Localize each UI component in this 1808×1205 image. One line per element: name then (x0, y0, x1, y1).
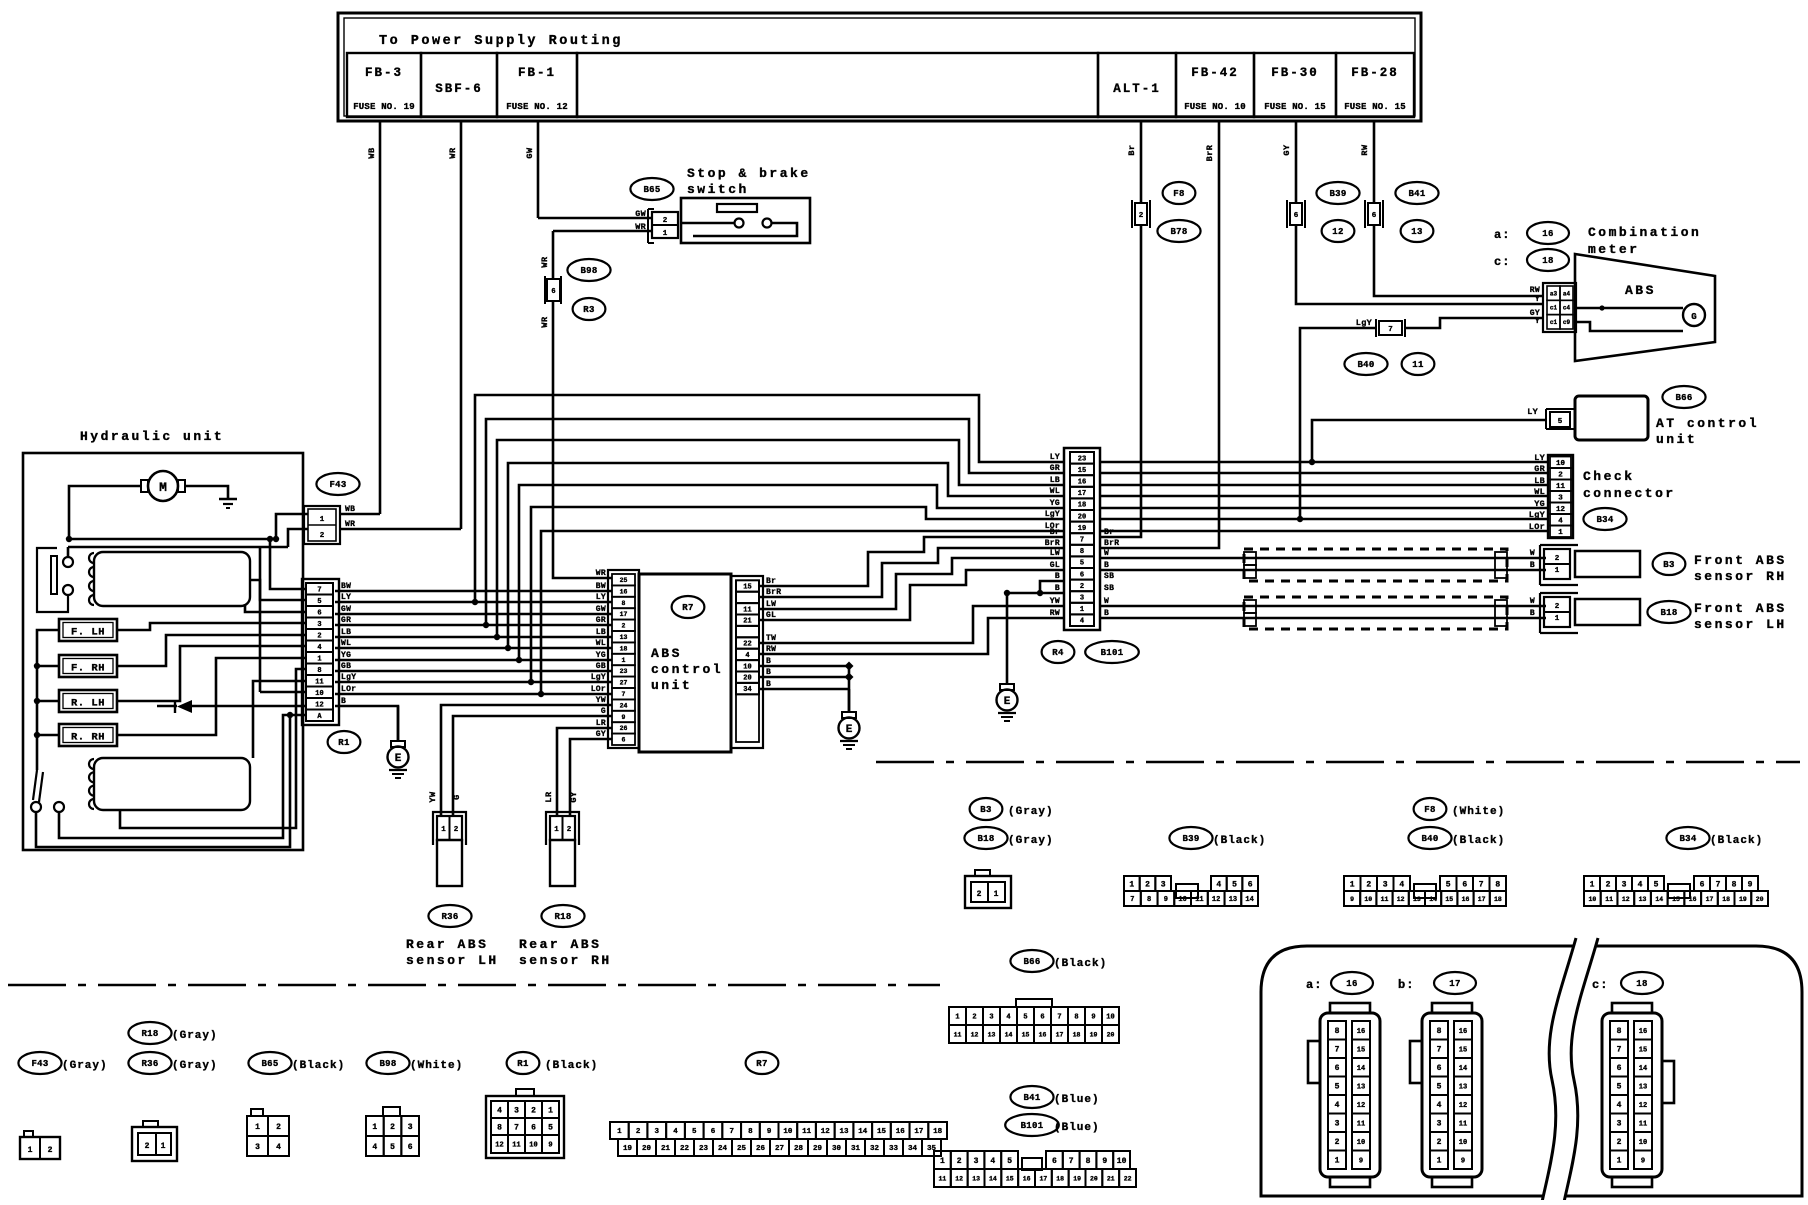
svg-text:B98: B98 (580, 266, 597, 276)
svg-text:Front ABS: Front ABS (1694, 601, 1787, 616)
svg-text:F43: F43 (329, 480, 346, 490)
svg-text:LY: LY (1050, 453, 1060, 462)
svg-text:LgY: LgY (591, 673, 606, 682)
svg-text:7: 7 (1335, 1046, 1340, 1055)
svg-text:2: 2 (1335, 1138, 1340, 1147)
svg-text:15: 15 (1006, 1175, 1014, 1182)
svg-text:1: 1 (1590, 880, 1595, 889)
svg-text:(Black): (Black) (545, 1060, 598, 1072)
svg-text:11: 11 (802, 1128, 812, 1136)
svg-text:20: 20 (1107, 1031, 1115, 1038)
svg-text:c9: c9 (1563, 319, 1571, 326)
svg-text:6: 6 (622, 737, 626, 744)
svg-text:18: 18 (1078, 502, 1086, 510)
svg-text:15: 15 (1078, 467, 1086, 475)
svg-text:6: 6 (1335, 1064, 1340, 1073)
svg-text:R7: R7 (756, 1059, 767, 1069)
svg-text:18: 18 (1722, 896, 1730, 903)
svg-text:12: 12 (1556, 506, 1566, 514)
svg-text:Check: Check (1583, 469, 1635, 484)
svg-text:LOr: LOr (341, 685, 356, 694)
svg-text:YG: YG (1050, 499, 1060, 508)
svg-text:22: 22 (743, 641, 751, 649)
svg-text:9: 9 (767, 1128, 772, 1136)
svg-text:4: 4 (317, 644, 321, 652)
svg-text:1: 1 (320, 516, 325, 524)
svg-text:Front ABS: Front ABS (1694, 553, 1787, 568)
svg-text:G: G (601, 707, 606, 716)
svg-text:B3: B3 (980, 805, 991, 815)
svg-text:4: 4 (1617, 1101, 1622, 1110)
svg-text:1: 1 (663, 230, 668, 238)
svg-text:B39: B39 (1182, 834, 1199, 844)
svg-text:14: 14 (1459, 1065, 1467, 1073)
svg-text:1: 1 (441, 826, 446, 834)
svg-text:16: 16 (1639, 1028, 1647, 1036)
svg-text:LR: LR (596, 719, 606, 728)
svg-text:ALT-1: ALT-1 (1113, 82, 1161, 96)
svg-text:5: 5 (1007, 1157, 1012, 1166)
svg-text:13: 13 (839, 1128, 849, 1136)
svg-text:2: 2 (48, 1146, 53, 1155)
svg-text:19: 19 (1078, 525, 1086, 533)
svg-text:14: 14 (1005, 1031, 1013, 1038)
svg-text:1: 1 (1437, 1157, 1442, 1166)
svg-text:1: 1 (1335, 1157, 1340, 1166)
svg-text:21: 21 (743, 618, 751, 626)
svg-text:3: 3 (1622, 880, 1627, 889)
svg-text:(Black): (Black) (292, 1060, 345, 1072)
svg-text:7: 7 (1437, 1046, 1442, 1055)
svg-text:2: 2 (1555, 555, 1560, 563)
svg-text:B65: B65 (643, 185, 660, 195)
svg-text:M: M (159, 480, 167, 495)
svg-text:TW: TW (766, 634, 776, 643)
svg-text:16: 16 (1357, 1028, 1365, 1036)
svg-text:GR: GR (1534, 464, 1545, 474)
svg-text:12: 12 (955, 1175, 963, 1182)
svg-text:YW: YW (596, 696, 606, 705)
svg-text:R. LH: R. LH (71, 698, 105, 710)
svg-text:26: 26 (756, 1145, 766, 1153)
svg-text:6: 6 (1294, 212, 1299, 220)
svg-text:1: 1 (940, 1157, 945, 1166)
svg-text:12: 12 (1212, 896, 1220, 904)
svg-text:10: 10 (529, 1142, 537, 1150)
svg-text:2: 2 (317, 632, 321, 640)
svg-text:15: 15 (1445, 896, 1453, 903)
svg-text:14: 14 (1429, 896, 1437, 903)
svg-text:7: 7 (1069, 1157, 1074, 1166)
svg-text:21: 21 (661, 1145, 671, 1153)
svg-text:ABS: ABS (1625, 283, 1656, 298)
svg-text:FB-28: FB-28 (1351, 66, 1399, 80)
svg-text:4: 4 (1437, 1101, 1442, 1110)
svg-text:YW: YW (1050, 597, 1060, 606)
svg-text:4: 4 (1558, 518, 1563, 526)
svg-text:15: 15 (1459, 1046, 1467, 1054)
svg-text:B66: B66 (1023, 957, 1040, 967)
svg-text:Hydraulic unit: Hydraulic unit (80, 429, 224, 444)
svg-text:LOr: LOr (591, 685, 606, 694)
svg-text:FUSE NO. 15: FUSE NO. 15 (1264, 102, 1326, 112)
svg-text:30: 30 (832, 1145, 842, 1153)
svg-text:2: 2 (1606, 880, 1611, 889)
svg-text:YG: YG (596, 651, 606, 660)
svg-text:9: 9 (1350, 896, 1354, 903)
svg-text:3: 3 (408, 1123, 413, 1132)
svg-text:LW: LW (1050, 549, 1060, 558)
svg-text:15: 15 (1022, 1031, 1030, 1038)
svg-text:18: 18 (1056, 1175, 1064, 1182)
svg-text:7: 7 (1617, 1046, 1622, 1055)
svg-text:F. RH: F. RH (71, 663, 105, 675)
svg-text:6: 6 (1617, 1064, 1622, 1073)
svg-text:18: 18 (1542, 256, 1553, 266)
svg-text:9: 9 (548, 1142, 552, 1150)
svg-text:FB-1: FB-1 (518, 66, 556, 80)
svg-text:9: 9 (1748, 880, 1753, 889)
svg-text:32: 32 (870, 1145, 880, 1153)
svg-text:2: 2 (1139, 212, 1144, 220)
svg-text:LgY: LgY (1529, 510, 1546, 520)
svg-text:34: 34 (908, 1145, 918, 1153)
svg-text:LgY: LgY (341, 673, 356, 682)
svg-text:1: 1 (1555, 615, 1560, 623)
svg-text:11: 11 (1605, 896, 1613, 903)
svg-text:5: 5 (1437, 1083, 1442, 1092)
svg-text:14: 14 (1655, 896, 1663, 903)
svg-text:a3: a3 (1550, 290, 1558, 297)
svg-text:(Gray): (Gray) (62, 1060, 108, 1072)
svg-text:17: 17 (1056, 1031, 1064, 1038)
svg-text:8: 8 (1086, 1157, 1091, 1166)
svg-text:12: 12 (971, 1031, 979, 1038)
svg-text:GW: GW (596, 605, 606, 614)
svg-text:13: 13 (1411, 227, 1422, 237)
svg-text:a:: a: (1306, 978, 1322, 992)
svg-text:11: 11 (315, 678, 323, 686)
svg-text:B40: B40 (1421, 834, 1438, 844)
svg-text:11: 11 (954, 1031, 962, 1038)
svg-text:9: 9 (1461, 1157, 1465, 1165)
svg-text:(White): (White) (410, 1060, 463, 1072)
svg-text:16: 16 (1459, 1028, 1467, 1036)
svg-text:GR: GR (341, 616, 351, 625)
svg-text:G: G (1691, 312, 1696, 322)
svg-text:1: 1 (622, 657, 626, 664)
svg-text:10: 10 (1459, 1139, 1467, 1147)
svg-text:3: 3 (655, 1128, 660, 1136)
svg-text:sensor LH: sensor LH (1694, 617, 1787, 632)
svg-text:28: 28 (794, 1145, 804, 1153)
svg-text:17: 17 (1449, 979, 1460, 989)
svg-text:R36: R36 (441, 912, 458, 922)
svg-text:B98: B98 (379, 1059, 396, 1069)
svg-text:3: 3 (974, 1157, 979, 1166)
svg-text:13: 13 (988, 1031, 996, 1038)
svg-text:12: 12 (1622, 896, 1630, 903)
svg-text:B: B (1104, 609, 1109, 618)
svg-text:E: E (1004, 696, 1011, 708)
svg-text:9: 9 (1091, 1014, 1095, 1022)
svg-text:GB: GB (596, 662, 606, 671)
svg-text:1: 1 (548, 1106, 553, 1115)
svg-text:33: 33 (889, 1145, 899, 1153)
svg-text:16: 16 (1078, 479, 1086, 487)
svg-text:5: 5 (1023, 1014, 1027, 1022)
svg-text:WL: WL (596, 639, 606, 648)
svg-text:7: 7 (1130, 896, 1134, 904)
svg-text:6: 6 (1372, 212, 1377, 220)
svg-text:F. LH: F. LH (71, 627, 105, 639)
svg-text:LB: LB (341, 628, 351, 637)
svg-text:20: 20 (1756, 896, 1764, 903)
svg-text:11: 11 (1412, 360, 1424, 370)
svg-text:3: 3 (1335, 1120, 1340, 1129)
svg-text:17: 17 (1039, 1175, 1047, 1182)
svg-text:B66: B66 (1675, 393, 1692, 403)
svg-text:27: 27 (775, 1145, 784, 1153)
svg-text:BrR: BrR (1104, 539, 1119, 548)
svg-text:4: 4 (1080, 618, 1084, 626)
svg-text:22: 22 (680, 1145, 690, 1153)
svg-text:4: 4 (745, 652, 749, 660)
svg-text:14: 14 (858, 1128, 868, 1136)
svg-text:LR: LR (544, 791, 554, 803)
svg-text:13: 13 (1229, 896, 1237, 904)
svg-text:R18: R18 (141, 1029, 158, 1039)
svg-text:GR: GR (1050, 464, 1060, 473)
svg-text:F43: F43 (31, 1059, 48, 1069)
svg-text:LgY: LgY (1045, 510, 1060, 519)
svg-text:RW: RW (1360, 144, 1370, 156)
svg-text:1: 1 (1555, 567, 1560, 575)
svg-text:24: 24 (620, 702, 628, 709)
svg-text:4: 4 (1638, 880, 1643, 889)
svg-text:LY: LY (1534, 453, 1545, 463)
svg-text:6: 6 (551, 288, 555, 296)
svg-text:2: 2 (1145, 880, 1150, 889)
svg-text:2: 2 (1437, 1138, 1442, 1147)
svg-text:16: 16 (1039, 1031, 1047, 1038)
svg-text:6: 6 (1248, 880, 1253, 889)
svg-text:18: 18 (1494, 896, 1502, 903)
svg-text:GY: GY (1282, 144, 1292, 156)
svg-text:27: 27 (620, 680, 628, 687)
svg-text:10: 10 (1639, 1139, 1647, 1147)
svg-text:c4: c4 (1563, 305, 1571, 312)
svg-text:9: 9 (622, 714, 626, 721)
svg-text:B101: B101 (1021, 1121, 1044, 1131)
svg-text:12: 12 (1459, 1102, 1467, 1110)
svg-text:3: 3 (1161, 880, 1166, 889)
svg-text:3: 3 (1080, 595, 1084, 603)
svg-text:8: 8 (1335, 1027, 1340, 1036)
svg-text:BW: BW (341, 582, 351, 591)
svg-text:19: 19 (1090, 1031, 1098, 1038)
svg-text:3: 3 (1558, 494, 1563, 502)
svg-text:a4: a4 (1563, 290, 1571, 297)
svg-text:13: 13 (1639, 1083, 1647, 1091)
svg-text:2: 2 (1366, 880, 1371, 889)
svg-text:B65: B65 (261, 1059, 278, 1069)
svg-text:10: 10 (1117, 1157, 1127, 1166)
svg-text:2: 2 (276, 1123, 281, 1132)
svg-text:6: 6 (1040, 1014, 1044, 1022)
svg-text:ABS: ABS (651, 646, 682, 661)
svg-text:25: 25 (620, 577, 628, 584)
svg-text:7: 7 (1388, 326, 1393, 334)
svg-text:17: 17 (620, 611, 628, 618)
svg-text:B40: B40 (1357, 360, 1374, 370)
svg-text:WR: WR (540, 316, 550, 328)
svg-text:13: 13 (620, 634, 628, 641)
svg-text:12: 12 (1397, 896, 1405, 903)
svg-text:19: 19 (623, 1145, 633, 1153)
svg-text:B: B (341, 697, 346, 706)
svg-text:14: 14 (1639, 1065, 1647, 1073)
svg-text:2: 2 (622, 623, 626, 630)
svg-text:Br: Br (1050, 528, 1060, 537)
svg-text:2: 2 (531, 1106, 536, 1115)
svg-text:WL: WL (1050, 487, 1060, 496)
svg-text:5: 5 (1617, 1083, 1622, 1092)
svg-text:20: 20 (743, 675, 751, 683)
svg-text:a:: a: (1494, 228, 1510, 242)
svg-text:20: 20 (1090, 1175, 1098, 1182)
svg-text:c1: c1 (1550, 319, 1558, 326)
svg-text:(Gray): (Gray) (1008, 835, 1054, 847)
svg-text:2: 2 (390, 1123, 395, 1132)
svg-text:21: 21 (1107, 1175, 1115, 1182)
svg-text:Rear ABS: Rear ABS (519, 937, 601, 952)
svg-text:BW: BW (596, 582, 606, 591)
svg-text:LB: LB (1534, 476, 1545, 486)
svg-text:15: 15 (1672, 896, 1680, 903)
svg-text:3: 3 (317, 621, 321, 629)
svg-text:5: 5 (1446, 880, 1451, 889)
svg-text:23: 23 (620, 668, 628, 675)
svg-text:12: 12 (495, 1142, 503, 1150)
svg-text:29: 29 (813, 1145, 823, 1153)
svg-text:1: 1 (1350, 880, 1355, 889)
svg-text:WL: WL (1534, 487, 1545, 497)
svg-text:5: 5 (1335, 1083, 1340, 1092)
svg-text:8: 8 (317, 667, 321, 675)
svg-text:7: 7 (1479, 880, 1484, 889)
svg-text:BrR: BrR (766, 588, 781, 597)
svg-text:16: 16 (1346, 979, 1357, 989)
svg-text:31: 31 (851, 1145, 861, 1153)
svg-text:B: B (1530, 561, 1535, 570)
svg-text:7: 7 (1057, 1014, 1061, 1022)
svg-text:9: 9 (1359, 1157, 1363, 1165)
svg-text:4: 4 (990, 1157, 995, 1166)
svg-text:9: 9 (1641, 1157, 1645, 1165)
svg-text:16: 16 (1689, 896, 1697, 903)
svg-text:18: 18 (620, 645, 628, 652)
svg-text:10: 10 (1178, 896, 1186, 904)
svg-text:7: 7 (514, 1123, 519, 1132)
svg-text:6: 6 (408, 1143, 413, 1152)
svg-text:4: 4 (372, 1143, 377, 1152)
svg-text:LB: LB (1050, 476, 1060, 485)
svg-text:14: 14 (989, 1175, 997, 1182)
svg-text:3: 3 (989, 1014, 993, 1022)
svg-text:8: 8 (1617, 1027, 1622, 1036)
svg-text:unit: unit (651, 678, 692, 693)
svg-text:1: 1 (617, 1128, 622, 1136)
svg-text:2: 2 (454, 826, 459, 834)
svg-text:4: 4 (673, 1128, 678, 1136)
svg-text:2: 2 (1558, 471, 1563, 479)
svg-text:Br: Br (1127, 144, 1137, 155)
svg-text:WR: WR (540, 256, 550, 268)
svg-text:To Power Supply Routing: To Power Supply Routing (379, 34, 623, 49)
svg-text:16: 16 (1542, 229, 1553, 239)
svg-text:13: 13 (1639, 896, 1647, 903)
svg-text:2: 2 (1617, 1138, 1622, 1147)
svg-text:GL: GL (1050, 561, 1060, 570)
svg-text:9: 9 (1102, 1157, 1107, 1166)
svg-text:1: 1 (1129, 880, 1134, 889)
svg-text:10: 10 (1357, 1139, 1365, 1147)
svg-text:1: 1 (161, 1142, 166, 1151)
svg-text:17: 17 (1478, 896, 1486, 903)
svg-text:1: 1 (955, 1014, 959, 1022)
svg-text:meter: meter (1588, 242, 1640, 257)
svg-text:4: 4 (276, 1143, 281, 1152)
svg-text:LY: LY (1527, 407, 1538, 417)
svg-text:GY: GY (569, 791, 579, 803)
svg-text:16: 16 (1462, 896, 1470, 903)
svg-text:W: W (1530, 597, 1535, 606)
svg-text:10: 10 (1588, 896, 1596, 903)
svg-text:8: 8 (1437, 1027, 1442, 1036)
svg-text:F8: F8 (1424, 805, 1435, 815)
svg-text:14: 14 (1245, 896, 1253, 904)
svg-text:8: 8 (1080, 548, 1084, 556)
svg-text:1: 1 (372, 1123, 377, 1132)
svg-text:W: W (1104, 597, 1109, 606)
svg-text:BrR: BrR (1205, 144, 1215, 161)
svg-text:Combination: Combination (1588, 225, 1701, 240)
svg-text:G: G (452, 794, 462, 800)
svg-text:20: 20 (1078, 513, 1086, 521)
svg-text:15: 15 (743, 584, 751, 592)
svg-text:12: 12 (1639, 1102, 1647, 1110)
svg-text:R1: R1 (338, 738, 350, 748)
svg-text:c:: c: (1592, 978, 1608, 992)
svg-text:10: 10 (315, 690, 323, 698)
svg-text:FB-42: FB-42 (1191, 66, 1239, 80)
svg-text:W: W (1530, 549, 1535, 558)
svg-text:SB: SB (1104, 572, 1114, 581)
svg-text:(Gray): (Gray) (172, 1030, 218, 1042)
svg-text:25: 25 (737, 1145, 747, 1153)
svg-text:B101: B101 (1101, 648, 1124, 658)
svg-text:17: 17 (1706, 896, 1714, 903)
svg-text:YG: YG (341, 651, 351, 660)
svg-text:WR: WR (345, 520, 355, 529)
svg-text:6: 6 (711, 1128, 716, 1136)
svg-text:8: 8 (622, 600, 626, 607)
svg-text:8: 8 (497, 1123, 502, 1132)
svg-text:F8: F8 (1173, 189, 1184, 199)
svg-text:SBF-6: SBF-6 (435, 82, 483, 96)
svg-text:11: 11 (1381, 896, 1389, 903)
